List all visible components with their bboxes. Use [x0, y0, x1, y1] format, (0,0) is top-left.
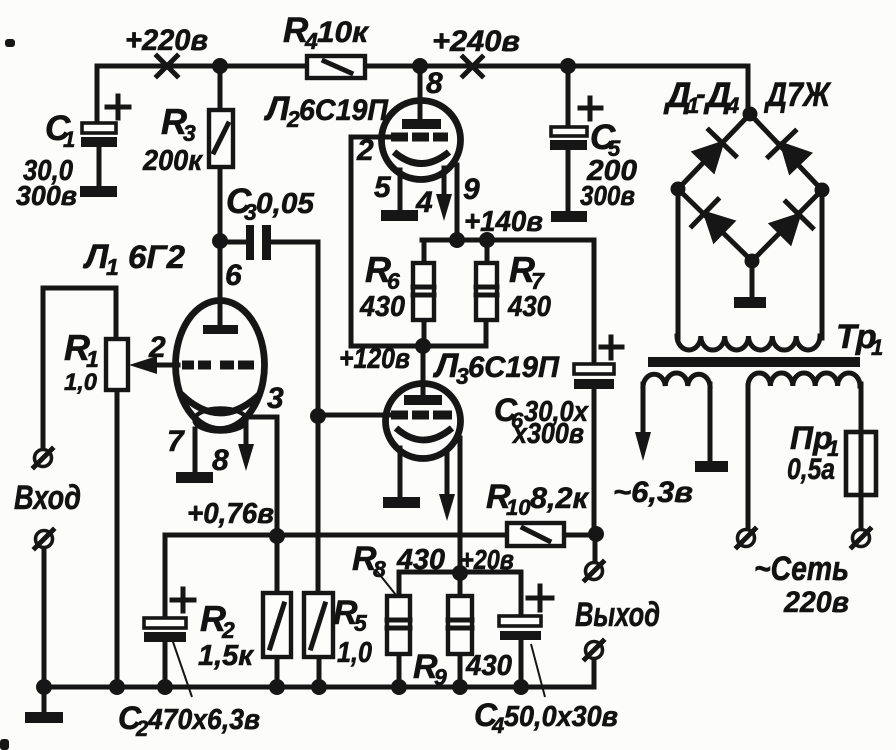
svg-text:430: 430	[396, 544, 445, 576]
svg-text:300в: 300в	[580, 180, 635, 211]
svg-text:470х6,3в: 470х6,3в	[147, 704, 260, 736]
svg-text:+240в: +240в	[432, 25, 520, 58]
svg-text:3: 3	[267, 382, 284, 415]
svg-text:Л: Л	[263, 90, 290, 128]
svg-text:5: 5	[374, 171, 392, 204]
svg-text:2: 2	[286, 106, 300, 132]
svg-text:220в: 220в	[783, 586, 849, 619]
svg-text:10: 10	[506, 495, 531, 520]
svg-text:10к: 10к	[317, 16, 370, 49]
svg-text:х300в: х300в	[511, 418, 584, 450]
svg-text:1: 1	[871, 335, 883, 360]
svg-text:8: 8	[426, 67, 443, 100]
svg-text:4: 4	[415, 186, 433, 219]
svg-text:+20в: +20в	[460, 544, 514, 575]
svg-text:+220в: +220в	[125, 24, 208, 57]
svg-text:430: 430	[507, 291, 551, 323]
svg-text:Д7Ж: Д7Ж	[763, 76, 832, 114]
svg-text:~Сеть: ~Сеть	[754, 550, 849, 588]
svg-text:1,0: 1,0	[64, 369, 98, 396]
svg-text:Вход: Вход	[14, 479, 81, 517]
svg-text:8: 8	[212, 444, 229, 477]
svg-text:Выход: Выход	[575, 596, 660, 634]
svg-text:6С19П: 6С19П	[468, 351, 560, 384]
svg-text:Л: Л	[82, 238, 109, 276]
svg-text:6: 6	[225, 259, 242, 292]
svg-text:0,5а: 0,5а	[787, 453, 835, 486]
svg-text:+120в: +120в	[339, 343, 410, 375]
svg-text:6Г2: 6Г2	[128, 239, 185, 275]
svg-text:6С19П: 6С19П	[299, 94, 389, 127]
svg-text:300в: 300в	[16, 180, 77, 211]
svg-text:0,05: 0,05	[256, 188, 315, 220]
svg-text:430: 430	[359, 291, 405, 323]
svg-text:Л: Л	[432, 347, 459, 385]
svg-text:200к: 200к	[142, 145, 203, 177]
svg-text:2: 2	[148, 331, 166, 364]
svg-text:1,5к: 1,5к	[198, 640, 254, 672]
svg-text:2: 2	[135, 716, 149, 741]
svg-text:4: 4	[726, 93, 739, 118]
svg-text:4: 4	[491, 713, 504, 738]
svg-text:8,2к: 8,2к	[530, 482, 590, 515]
svg-text:~6,3в: ~6,3в	[613, 476, 693, 509]
svg-text:9: 9	[434, 664, 447, 690]
svg-text:+140в: +140в	[464, 206, 543, 238]
svg-text:1: 1	[106, 254, 119, 280]
svg-text:1: 1	[63, 127, 75, 152]
svg-text:9: 9	[463, 173, 480, 206]
svg-text:1,0: 1,0	[337, 637, 372, 669]
svg-text:3: 3	[183, 120, 196, 146]
svg-text:+0,76в: +0,76в	[187, 498, 274, 530]
svg-text:5: 5	[354, 610, 368, 636]
svg-text:2: 2	[356, 134, 374, 167]
svg-text:50,0х30в: 50,0х30в	[504, 701, 618, 733]
svg-text:7: 7	[167, 425, 185, 458]
svg-text:4: 4	[304, 28, 318, 54]
svg-text:-: -	[696, 79, 706, 111]
svg-text:430: 430	[465, 650, 512, 682]
svg-text:8: 8	[373, 556, 386, 582]
